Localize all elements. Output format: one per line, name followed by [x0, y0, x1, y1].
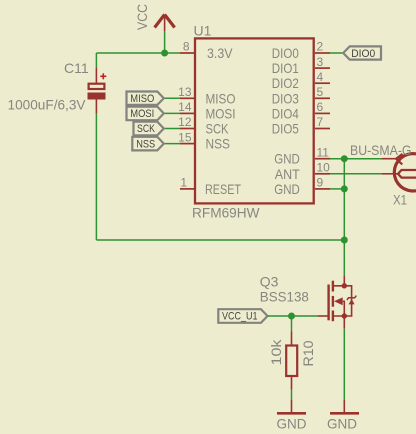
svg-text:DIO1: DIO1: [272, 60, 299, 76]
wire R10 top: [291, 316, 293, 331]
pin 2 DIO0: [272, 40, 330, 61]
gate lead: [317, 315, 328, 317]
junction gate/R10: [288, 313, 295, 320]
wire DIO0: [330, 52, 343, 54]
svg-text:DIO3: DIO3: [272, 90, 299, 106]
net label SCK: [134, 122, 181, 136]
ground GND left: [277, 413, 307, 431]
channel segment source: [332, 311, 334, 322]
connector X1 BU-SMA-G: [382, 154, 416, 191]
svg-text:1: 1: [180, 176, 187, 190]
svg-text:RFM69HW: RFM69HW: [192, 205, 260, 221]
junction VCC node: [161, 50, 168, 57]
pin 12 SCK: [178, 115, 229, 136]
wire left vertical C11 down: [95, 114, 97, 240]
plus sign: [100, 75, 106, 77]
svg-text:MISO: MISO: [130, 93, 154, 105]
svg-text:GND: GND: [277, 416, 307, 432]
svg-text:GND: GND: [274, 151, 300, 167]
svg-text:VCC_U1: VCC_U1: [222, 311, 258, 323]
svg-text:12: 12: [178, 115, 192, 129]
junction source: [342, 313, 347, 318]
channel segment drain: [332, 281, 334, 292]
svg-text:MOSI: MOSI: [206, 105, 236, 121]
drain connection: [334, 276, 344, 286]
svg-text:10: 10: [317, 161, 331, 175]
svg-text:GND: GND: [274, 181, 300, 197]
pin 9 GND: [274, 176, 330, 197]
svg-text:11: 11: [317, 145, 330, 159]
svg-text:U1: U1: [194, 23, 212, 39]
svg-text:9: 9: [317, 176, 324, 190]
pin 11 GND: [274, 145, 330, 166]
body diode zener bar: [347, 296, 356, 300]
source connection: [334, 316, 344, 329]
junction drain: [342, 283, 347, 288]
body diode triangle: [349, 299, 355, 305]
svg-text:NSS: NSS: [136, 138, 155, 150]
svg-text:5: 5: [317, 85, 324, 99]
pin 8 3.3V: [180, 40, 233, 61]
ground GND right: [327, 413, 359, 431]
svg-text:DIO5: DIO5: [272, 121, 299, 137]
svg-text:BSS138: BSS138: [260, 288, 309, 304]
pin 13 MISO: [178, 85, 235, 106]
wire VCC stem: [164, 31, 166, 53]
svg-text:13: 13: [178, 85, 192, 99]
svg-text:C11: C11: [64, 60, 89, 76]
svg-text:BU-SMA-G: BU-SMA-G: [350, 142, 412, 158]
capacitor C11: [88, 53, 107, 114]
svg-text:8: 8: [183, 40, 190, 54]
svg-text:3.3V: 3.3V: [207, 45, 233, 61]
svg-text:SCK: SCK: [206, 121, 230, 137]
channel segment body: [332, 296, 334, 307]
net label NSS: [132, 137, 180, 151]
net label MISO: [127, 92, 181, 106]
svg-text:10k: 10k: [268, 338, 284, 365]
net label DIO0: [343, 46, 381, 60]
center socket fork: [398, 170, 416, 178]
svg-text:VCC: VCC: [134, 4, 150, 30]
svg-text:DIO2: DIO2: [272, 75, 299, 91]
svg-text:DIO0: DIO0: [351, 48, 375, 60]
svg-text:4: 4: [317, 70, 324, 84]
pin 7 DIO5: [272, 115, 330, 136]
pin 4 DIO2: [272, 70, 330, 91]
svg-text:1000uF/6,3V: 1000uF/6,3V: [8, 97, 87, 113]
svg-text:7: 7: [317, 115, 324, 129]
svg-text:NSS: NSS: [206, 136, 231, 152]
svg-text:X1: X1: [393, 192, 407, 208]
wire right vertical x=344 from pin11 row down to mosfet: [343, 159, 345, 276]
wire source to ground: [343, 329, 345, 400]
svg-text:GND: GND: [327, 416, 357, 432]
pin 1 RESET: [180, 176, 241, 197]
body arrow: [334, 297, 343, 305]
shield fork: [396, 154, 403, 165]
net label MOSI: [127, 107, 181, 121]
svg-text:14: 14: [178, 100, 192, 114]
junction at (344,240): [341, 237, 348, 244]
shield pin lead: [382, 158, 396, 160]
pin 5 DIO3: [272, 85, 330, 106]
wire top horizontal C11 to pin 8: [96, 52, 180, 54]
svg-text:6: 6: [317, 100, 324, 114]
power symbol VCC: [155, 15, 175, 32]
svg-text:R10: R10: [300, 340, 316, 366]
junction pin9: [341, 185, 348, 192]
body diode loop: [344, 286, 351, 316]
wire VCC_U1 to gate: [268, 315, 318, 317]
transistor Q3 BSS138: [317, 276, 356, 329]
pin 15 NSS: [178, 130, 230, 151]
pin 10 ANT: [275, 161, 330, 182]
svg-text:Q3: Q3: [260, 273, 279, 289]
svg-text:SCK: SCK: [137, 123, 156, 135]
svg-text:3: 3: [317, 55, 324, 69]
shield arc: [394, 154, 416, 191]
svg-text:MISO: MISO: [206, 90, 236, 106]
pin 6 DIO4: [272, 100, 330, 121]
wire pin9 to vertical: [330, 188, 344, 190]
net label VCC_U1: [218, 309, 267, 323]
wire bottom horizontal bus y=240: [96, 239, 344, 241]
gate bar: [327, 285, 329, 321]
svg-text:RESET: RESET: [205, 181, 241, 197]
wire pin11 to shield: [330, 158, 382, 160]
svg-text:DIO4: DIO4: [272, 105, 299, 121]
pin 14 MOSI: [178, 100, 235, 121]
junction pin11: [341, 155, 348, 162]
wire pin10 to center pin: [330, 173, 382, 175]
svg-text:MOSI: MOSI: [130, 108, 154, 120]
svg-text:DIO0: DIO0: [272, 45, 299, 61]
IC U1 RFM69HW body: [195, 38, 314, 203]
svg-text:ANT: ANT: [275, 166, 300, 182]
resistor R10: [286, 316, 297, 412]
svg-text:2: 2: [317, 40, 324, 54]
center pin lead: [382, 173, 398, 175]
wire C11 top lead: [95, 53, 97, 68]
svg-text:15: 15: [178, 130, 192, 144]
pin 3 DIO1: [272, 55, 330, 76]
